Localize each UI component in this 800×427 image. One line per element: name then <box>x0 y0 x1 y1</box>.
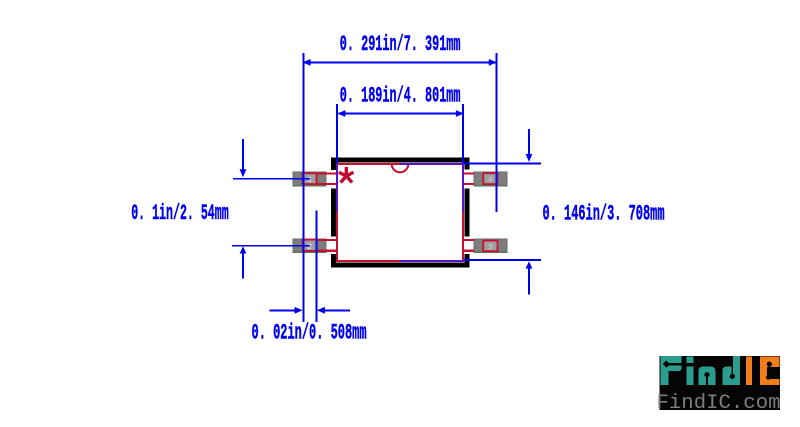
dim line 0.291in horizontal with arrows <box>303 59 497 66</box>
purple overlap: left body edge under 0.189 ext line <box>336 165 338 212</box>
package body red outline: right edge <box>462 163 464 262</box>
pad P2 inner copper <box>303 240 317 251</box>
package body red outline: top edge <box>336 163 464 165</box>
svg-text:1: 1 <box>307 176 312 185</box>
dim 0.1in left: pin1 center reference line <box>233 178 310 179</box>
wire pin4 to body top <box>464 172 474 174</box>
svg-text:3: 3 <box>488 243 493 252</box>
svg-text:0. 146in/3. 708mm: 0. 146in/3. 708mm <box>543 202 665 227</box>
package body red outline: bottom edge <box>336 260 464 262</box>
FindIC logo black box <box>660 356 780 410</box>
pad P3 inner copper <box>483 241 497 252</box>
package body black outline: left bar segments (gaps at pins) <box>331 158 336 171</box>
package body black outline: right bar segments (gaps at pins) <box>464 158 469 170</box>
logo letter n (teal) <box>699 367 716 386</box>
logo letter d (teal) <box>722 356 740 385</box>
pin 1 marker red asterisk <box>339 167 354 183</box>
pad P2 outer (pin 2, left bottom) <box>293 239 326 253</box>
dim 0.146in right: upper arrow (down) <box>526 129 533 162</box>
dim 0.146in right: lower arrow (up) <box>526 261 533 294</box>
wire pin3 to body top <box>464 239 474 241</box>
svg-text:2: 2 <box>307 243 312 252</box>
dim 0.1in left: pin2 center reference line <box>232 245 310 246</box>
logo n circuit trace <box>704 372 709 385</box>
svg-text:FindIC.com: FindIC.com <box>657 392 781 415</box>
dim line 0.189in horizontal with arrows <box>337 110 464 117</box>
dim ext line right x=463 (0.189, blue above body) <box>462 104 464 164</box>
dim 0.1in left: lower arrow (up) <box>240 246 247 278</box>
wire pin1 to body bottom <box>317 183 337 185</box>
logo C circuit trace dots <box>766 362 772 380</box>
dim ext line left x=337.3 (0.189, blue above body) <box>336 104 338 164</box>
svg-text:4: 4 <box>488 176 493 185</box>
package body black outline: bottom bar <box>331 262 468 267</box>
logo letter C (orange) <box>760 356 780 385</box>
svg-text:0. 189in/4. 801mm: 0. 189in/4. 801mm <box>340 84 461 109</box>
svg-text:0. 02in/0. 508mm: 0. 02in/0. 508mm <box>252 321 367 346</box>
dim ext line right x=497 (0.291) <box>496 53 498 212</box>
wire pin1 to body top <box>317 172 337 174</box>
pin1 orientation notch (red arc at top center) <box>392 164 409 172</box>
pad P1 inner copper <box>303 173 317 184</box>
pad P3 outer (pin 3, right bottom) <box>474 239 507 253</box>
logo letter F (teal) <box>660 356 681 385</box>
purple overlap: body bottom edge under 0.146 ref line <box>400 260 464 262</box>
wire pin2 to body top <box>317 239 337 241</box>
logo letter i (teal) <box>686 356 693 385</box>
pad P1 outer (pin 1, left top) <box>293 172 326 186</box>
package body red outline: left edge <box>336 163 338 262</box>
logo d circuit trace <box>730 356 735 379</box>
pad P4 outer (pin 4, right top) <box>474 172 507 186</box>
dim 0.1in left: upper arrow (down) <box>240 139 247 177</box>
package body black outline: top bar <box>331 158 469 163</box>
svg-text:0. 291in/7. 391mm: 0. 291in/7. 391mm <box>340 32 461 57</box>
logo letter I (orange) <box>746 356 752 385</box>
dim 0.146in right: top reference line <box>464 162 541 164</box>
pad P4 inner copper <box>483 173 497 184</box>
dim 0.146in right: bottom reference line <box>464 259 541 261</box>
dim 0.02in bottom: ext line x=316.4 <box>315 211 317 323</box>
dim ext line left x=303 (shared 0.291 / 0.02) <box>302 53 304 322</box>
dim 0.02in bottom: left arrow line (points right) <box>269 307 302 314</box>
wire pin3 to body bottom <box>464 250 474 252</box>
purple overlap: body top edge under 0.146 ref line <box>400 163 464 165</box>
wire pin4 to body bottom <box>464 183 474 185</box>
wire pin2 to body bottom <box>317 250 337 252</box>
logo F circuit trace (black dot + line) <box>663 360 683 367</box>
dim 0.02in bottom: right arrow line (points left) <box>317 307 350 314</box>
svg-text:0. 1in/2. 54mm: 0. 1in/2. 54mm <box>131 201 229 226</box>
purple overlap: right body edge under 0.189 ext line <box>462 165 464 212</box>
